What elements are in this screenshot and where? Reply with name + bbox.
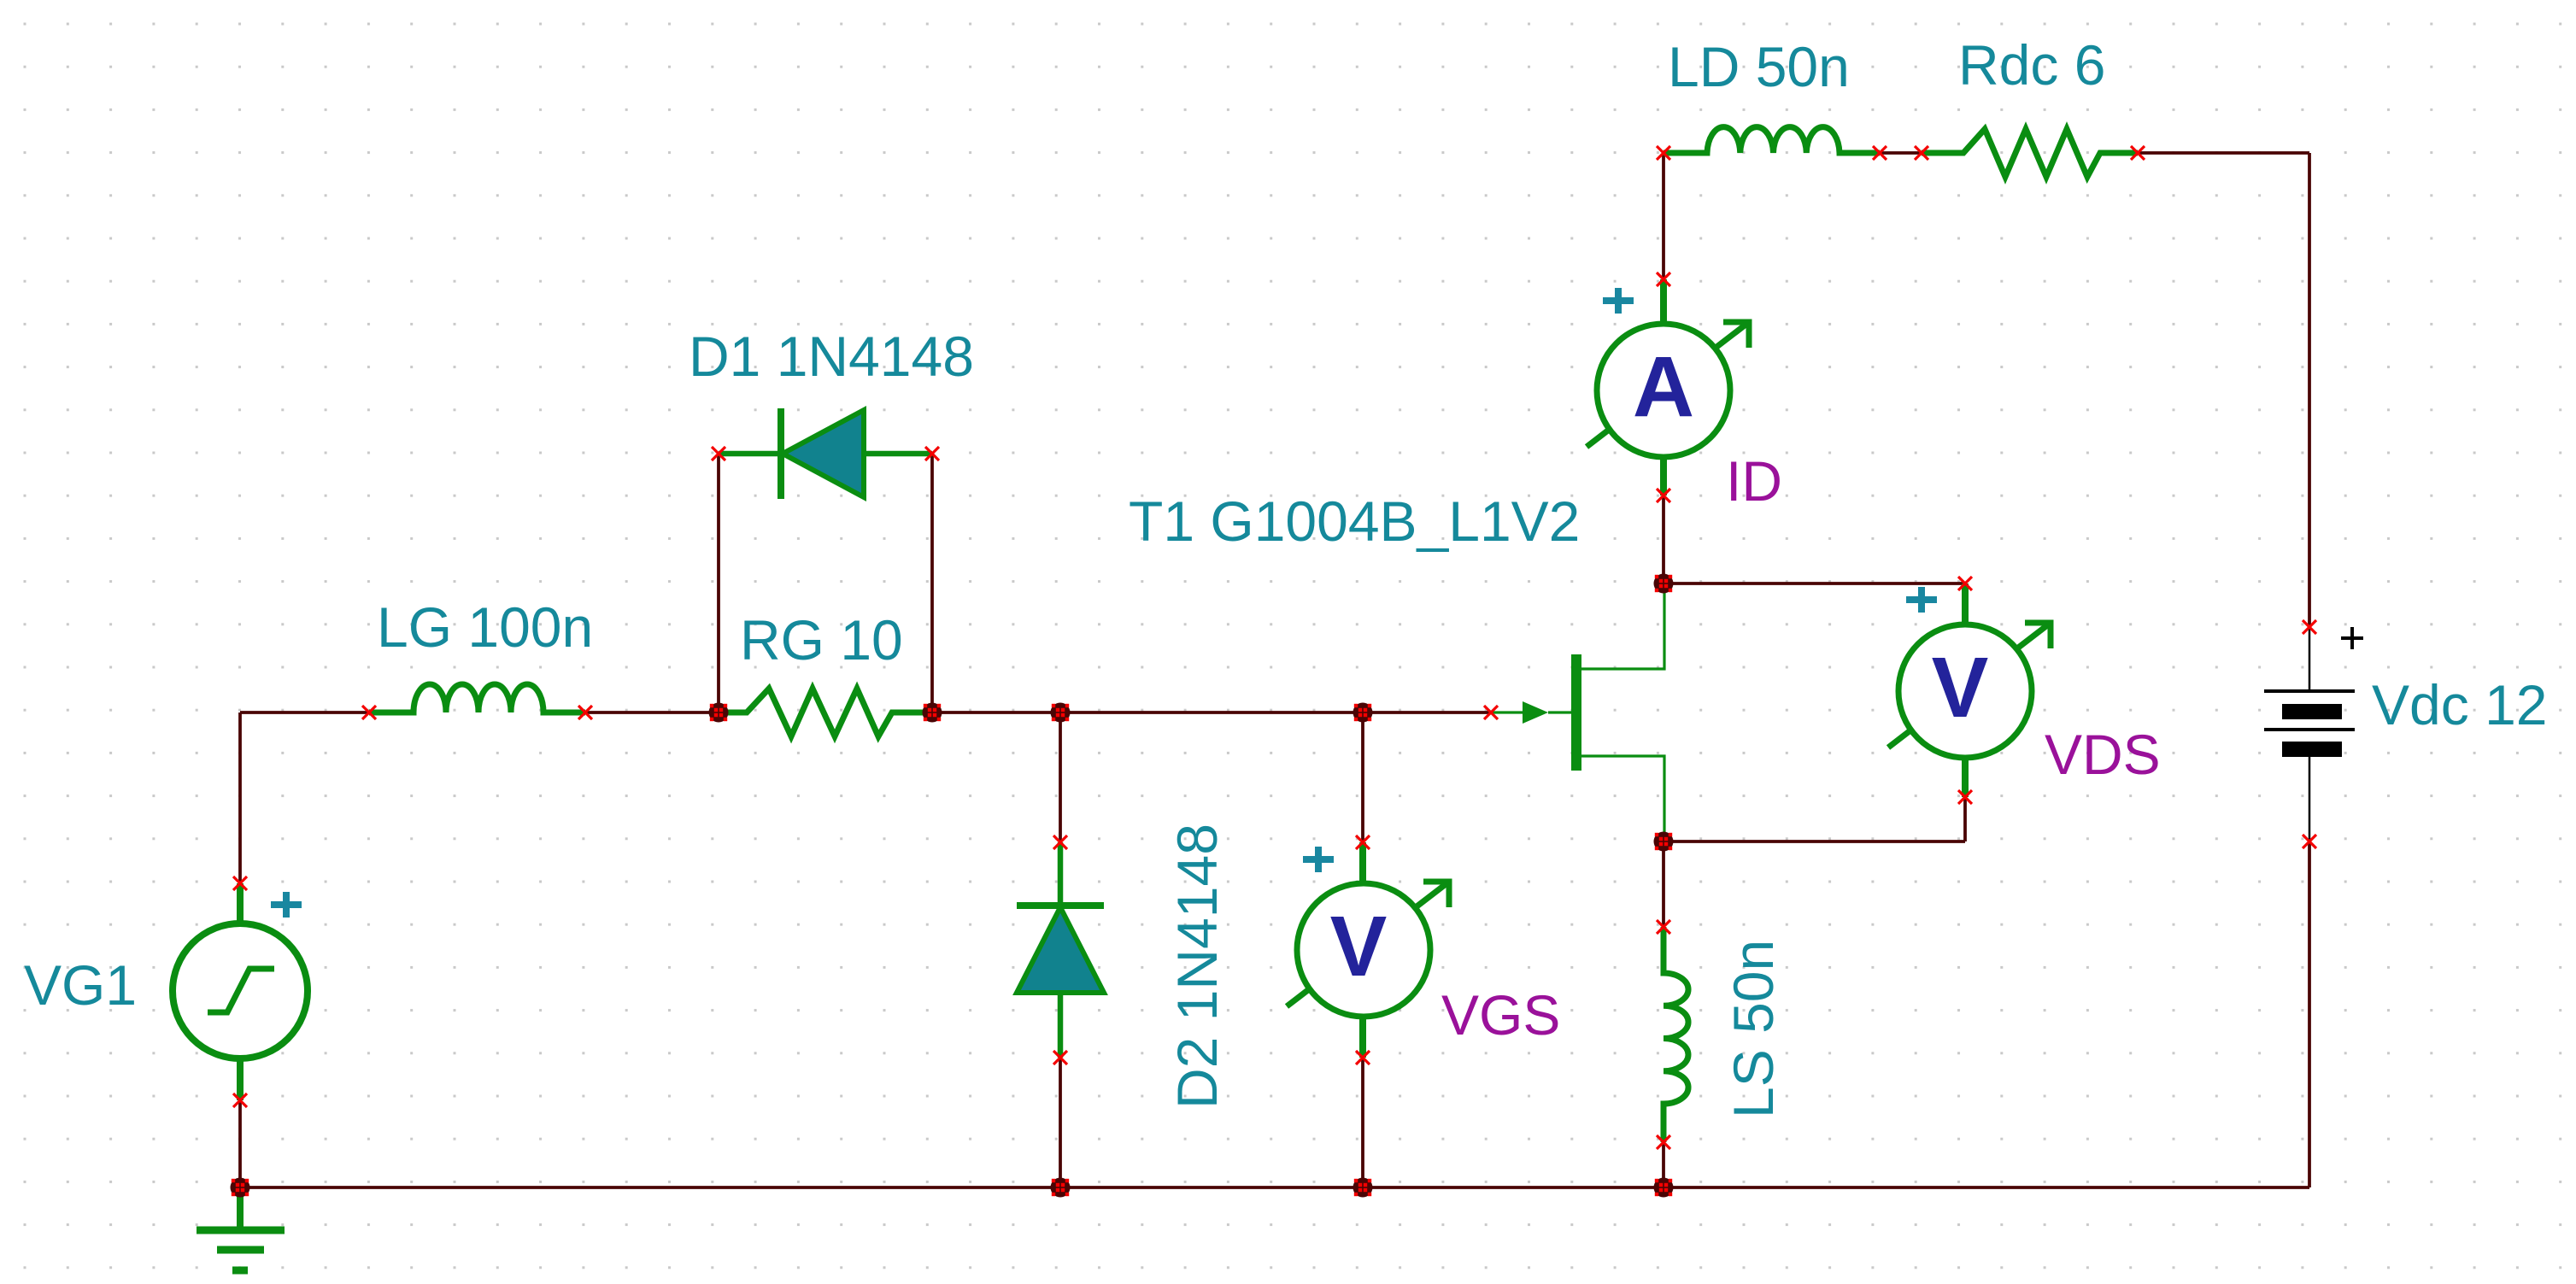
LS top terminal xyxy=(1657,920,1670,934)
svg-text:LG 100n: LG 100n xyxy=(377,595,593,659)
VGS bottom terminal xyxy=(1356,1051,1370,1064)
svg-text:LS 50n: LS 50n xyxy=(1722,940,1785,1118)
svg-text:VDS: VDS xyxy=(2045,723,2161,786)
label VG1 xyxy=(24,953,137,1017)
Rdc right terminal xyxy=(2131,146,2145,160)
node J6 D2 ground xyxy=(1051,1178,1071,1198)
diode D1 1N4148 xyxy=(719,408,932,499)
D2 top terminal xyxy=(1053,835,1067,849)
VG1 plus sign xyxy=(271,892,302,918)
wire LD-Rdc link xyxy=(1880,151,1922,155)
wire J3 to J4 xyxy=(1060,711,1363,714)
svg-text:LD 50n: LD 50n xyxy=(1668,35,1850,98)
ammeter top terminal xyxy=(1657,273,1670,286)
label LS 50n xyxy=(1722,940,1785,1118)
VDS top terminal xyxy=(1958,577,1972,590)
ammeter stubs xyxy=(1660,279,1667,495)
svg-text:A: A xyxy=(1633,339,1694,435)
svg-text:V: V xyxy=(1932,640,1989,736)
wire J4 down to VGS meter xyxy=(1361,712,1364,842)
LD left terminal xyxy=(1657,146,1670,160)
label VDS xyxy=(2045,723,2161,786)
Vdc bottom terminal xyxy=(2303,835,2316,848)
wire LG to gate node J1 xyxy=(585,711,719,714)
svg-text:Rdc 6: Rdc 6 xyxy=(1958,33,2105,97)
VG1 bottom terminal xyxy=(233,1093,247,1107)
Rdc left terminal xyxy=(1915,146,1928,160)
wire VGS meter to ground rail xyxy=(1361,1058,1364,1187)
wire D2 to ground rail xyxy=(1059,1058,1062,1187)
wire Rdc to top-right corner xyxy=(2138,153,2309,627)
wire J1 up to D1 anode xyxy=(717,454,720,712)
resistor RG xyxy=(719,689,932,736)
voltage source VG1 xyxy=(173,883,308,1100)
ground xyxy=(197,1187,285,1270)
ammeter plus sign xyxy=(1603,288,1634,314)
wire VG1 top to LG xyxy=(240,712,369,883)
wire LS to ground rail xyxy=(1662,1142,1665,1187)
svg-text:ID: ID xyxy=(1726,449,1782,513)
node J4 gate-VGS xyxy=(1353,703,1373,723)
svg-text:D2 1N4148: D2 1N4148 xyxy=(1165,824,1229,1109)
label LG 100n xyxy=(377,595,593,659)
voltmeter VGS xyxy=(1287,882,1449,1017)
wire J3 down to D2 xyxy=(1059,712,1062,842)
D1 right terminal xyxy=(925,447,939,460)
label RG 10 xyxy=(740,608,903,671)
D1 left terminal xyxy=(712,447,725,460)
LG left terminal xyxy=(362,706,376,719)
wire J9 to VDS plus xyxy=(1664,582,1965,585)
LD right terminal xyxy=(1873,146,1887,160)
label ID xyxy=(1726,449,1782,513)
wire VDS minus to source node J10 xyxy=(1664,797,1965,841)
wire J2 to J3 xyxy=(932,711,1060,714)
VGS plus sign xyxy=(1303,847,1334,872)
battery Vdc 12 xyxy=(2264,627,2355,841)
transistor T1 xyxy=(1491,583,1664,841)
ground rail xyxy=(240,1186,2309,1189)
VDS bottom terminal xyxy=(1958,790,1972,804)
LG right terminal xyxy=(578,706,592,719)
Vdc top terminal xyxy=(2303,620,2316,634)
svg-text:T1 G1004B_L1V2: T1 G1004B_L1V2 xyxy=(1129,490,1580,553)
resistor Rdc xyxy=(1922,129,2138,177)
D2 bottom terminal xyxy=(1053,1051,1067,1064)
ammeter ID xyxy=(1587,322,1749,457)
VGS top terminal xyxy=(1356,835,1370,849)
label D2 1N4148 xyxy=(1165,824,1229,1109)
label T1 G1004B_L1V2 xyxy=(1129,490,1580,553)
VDS plus sign xyxy=(1906,587,1937,613)
Vdc plus sign xyxy=(2341,627,2363,649)
node J7 VGS ground xyxy=(1353,1178,1373,1198)
wire J4 to gate terminal xyxy=(1363,711,1491,714)
wire top-left corner to ammeter xyxy=(1662,153,1665,279)
node J1 gate-D1 left xyxy=(709,703,729,723)
inductor LS xyxy=(1664,927,1688,1142)
inductor LD xyxy=(1664,127,1880,153)
node J9 drain xyxy=(1654,574,1674,594)
svg-text:V: V xyxy=(1330,899,1388,994)
wire Vdc minus to ground rail xyxy=(2308,841,2311,1187)
T1 gate terminal xyxy=(1484,706,1498,719)
label Vdc 12 xyxy=(2372,673,2547,736)
node J10 source xyxy=(1654,832,1674,852)
svg-text:RG 10: RG 10 xyxy=(740,608,903,671)
svg-text:D1 1N4148: D1 1N4148 xyxy=(689,325,974,388)
label VGS xyxy=(1441,983,1560,1047)
label LD 50n xyxy=(1668,35,1850,98)
svg-text:VG1: VG1 xyxy=(24,953,137,1017)
label Rdc 6 xyxy=(1958,33,2105,97)
wire J10 down to LS xyxy=(1662,841,1665,927)
wire ammeter to drain node J9 xyxy=(1662,495,1665,583)
VGS meter stubs xyxy=(1359,842,1366,1058)
wire VG1 bottom to ground node xyxy=(238,1100,242,1187)
node J2 gate-D1 right xyxy=(923,703,942,723)
node J8 LS ground xyxy=(1654,1178,1674,1198)
node J3 gate-D2 xyxy=(1051,703,1071,723)
svg-text:Vdc 12: Vdc 12 xyxy=(2372,673,2547,736)
inductor LG xyxy=(369,684,585,712)
VDS meter stubs xyxy=(1962,583,1969,797)
label D1 1N4148 xyxy=(689,325,974,388)
VG1 top terminal xyxy=(233,877,247,890)
ammeter bottom terminal xyxy=(1657,489,1670,502)
diode D2 1N4148 xyxy=(1017,842,1104,1058)
LS bottom terminal xyxy=(1657,1135,1670,1149)
wire J2 up to D1 cathode xyxy=(930,454,934,712)
node J5 VG1 ground xyxy=(231,1178,250,1198)
svg-text:VGS: VGS xyxy=(1441,983,1560,1047)
voltmeter VDS xyxy=(1888,623,2051,758)
